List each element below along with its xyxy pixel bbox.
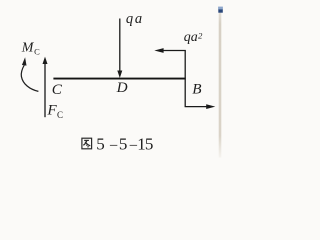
svg-text:5: 5 xyxy=(119,134,128,153)
beam CB xyxy=(53,78,185,80)
page edge line xyxy=(219,13,222,158)
svg-text:FC: FC xyxy=(46,102,63,120)
svg-text:C: C xyxy=(52,81,63,98)
svg-text:qa: qa xyxy=(126,11,144,27)
svg-text:5: 5 xyxy=(145,134,154,153)
svg-text:D: D xyxy=(116,79,128,96)
svg-text:B: B xyxy=(192,80,201,97)
svg-text:–: – xyxy=(109,137,118,153)
couple bottom arrow (points right) xyxy=(185,104,216,109)
caption hanzi "tu" (drawn) xyxy=(82,138,92,149)
svg-text:MC: MC xyxy=(21,41,40,57)
force qa arrow xyxy=(117,19,122,79)
couple top arrow (points left) xyxy=(154,48,186,53)
caption text 5-5-15 xyxy=(96,134,153,153)
svg-text:qa2: qa2 xyxy=(184,30,203,45)
blue mark xyxy=(218,7,223,13)
reaction moment M_C arc arrow xyxy=(21,57,38,91)
couple vertical link at B xyxy=(184,51,186,107)
svg-text:5: 5 xyxy=(96,134,105,153)
reaction force F_C arrow xyxy=(43,57,48,118)
